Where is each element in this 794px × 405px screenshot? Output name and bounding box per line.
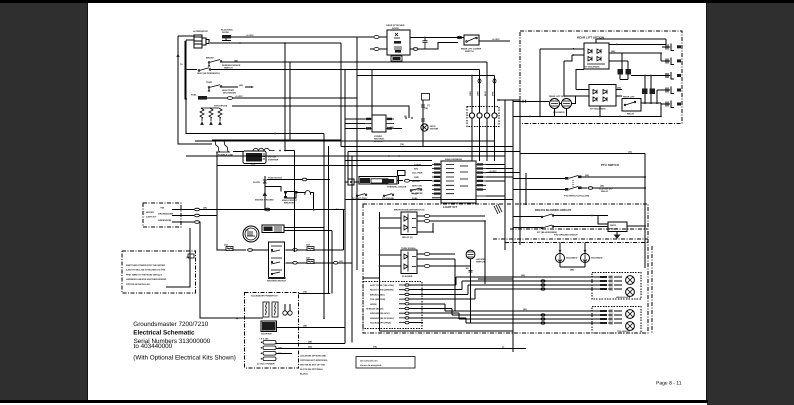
main harness connector J1 [412, 158, 486, 203]
svg-text:KIT SOLENOID: KIT SOLENOID [584, 66, 600, 69]
wire table row6 jog [409, 309, 602, 316]
svg-text:(09): (09) [234, 59, 238, 62]
svg-text:(50): (50) [308, 346, 312, 349]
svg-text:IGN: IGN [414, 168, 418, 171]
svg-text:(60): (60) [521, 274, 525, 277]
taillight cluster dotted [592, 307, 641, 334]
vertical bus x330 [328, 146, 330, 294]
wire cn2 drop [622, 53, 661, 61]
wire bus y199.6 [345, 199, 513, 201]
svg-text:LEFT TURN (YELLOW): LEFT TURN (YELLOW) [370, 284, 394, 287]
svg-text:(42): (42) [239, 84, 243, 87]
wire block rows right [486, 165, 520, 197]
rear steering valve V1 [386, 24, 410, 61]
svg-text:ADAPTER: ADAPTER [261, 333, 272, 336]
svg-text:LOCATION OF ROW AND: LOCATION OF ROW AND [300, 355, 327, 358]
svg-text:(29): (29) [303, 325, 307, 328]
svg-text:(31): (31) [339, 260, 343, 263]
svg-text:STARTER: STARTER [268, 159, 279, 162]
svg-text:SWITCH: SWITCH [465, 50, 474, 53]
connector P1 [370, 36, 387, 51]
wire bus y141 [195, 140, 495, 142]
wire water kit row1 [172, 209, 194, 211]
svg-text:15A: 15A [224, 244, 228, 247]
wire k2 top feed [596, 39, 666, 44]
wire: arrow on x178 [176, 53, 179, 57]
vertical bus x345 [344, 70, 346, 344]
capacitor C1 [410, 37, 458, 49]
svg-text:+5 VDC: +5 VDC [492, 38, 500, 41]
wire x191 down through caution box [166, 228, 190, 287]
wire bus y146 [341, 146, 513, 148]
svg-text:(BL): (BL) [251, 163, 256, 166]
relay K3 lower coil [589, 85, 616, 111]
svg-text:to 403440000: to 403440000 [134, 343, 173, 350]
location note [300, 355, 328, 376]
svg-text:BREAKER: BREAKER [284, 202, 295, 205]
svg-text:THERMAL GAUGE: THERMAL GAUGE [387, 186, 407, 189]
wire key feed [233, 249, 246, 251]
diode D1 fusible link [221, 29, 233, 41]
relay K6 pto label [588, 185, 646, 194]
dashed divider pto/light [493, 238, 648, 240]
wire pto rows [513, 177, 645, 190]
diode D2 glow [253, 176, 339, 211]
wire relay1 left [363, 212, 513, 331]
svg-text:RELAY: RELAY [601, 190, 609, 193]
svg-text:GRN: GRN [476, 91, 479, 96]
vertical bus x526 [525, 173, 527, 205]
svg-text:(45): (45) [617, 86, 621, 89]
wire gauge to verticals [284, 228, 332, 231]
svg-text:BRAKE: BRAKE [206, 57, 214, 60]
hour meter HM1 [243, 226, 259, 242]
wire table row8 jog [409, 318, 602, 323]
svg-text:REAR LIFT SOL: REAR LIFT SOL [549, 95, 566, 98]
svg-text:PTO SWITCH: PTO SWITCH [601, 163, 619, 167]
svg-text:MAIN HARNESS: MAIN HARNESS [445, 158, 462, 161]
svg-text:ACCESSORY POWER KIT: ACCESSORY POWER KIT [251, 295, 278, 298]
svg-text:GLOW: GLOW [253, 181, 261, 184]
switch S5 oil pressure [410, 188, 423, 195]
svg-text:shown de-energized.: shown de-energized. [360, 364, 382, 367]
relay K4 brake/horn [401, 212, 417, 239]
svg-text:(76): (76) [303, 291, 307, 294]
svg-text:GREEN/GRN: GREEN/GRN [158, 219, 172, 222]
wire k9 right [641, 103, 661, 116]
svg-text:MOTOR: MOTOR [430, 128, 439, 131]
vertical x645 [644, 154, 646, 269]
svg-text:HEADLIGHTS: HEADLIGHTS [616, 296, 631, 299]
wire bus y75.5 [357, 75, 495, 77]
svg-text:PTO GROUND GROUP: PTO GROUND GROUP [554, 234, 578, 237]
svg-text:+5 VDC: +5 VDC [489, 170, 497, 173]
relay K9 rear lift relay [622, 96, 641, 116]
blower switch S9 [537, 214, 557, 234]
svg-text:(With Optional Electrical Kits: (With Optional Electrical Kits Shown) [133, 355, 236, 362]
svg-text:CAN KIT WILL BE ATTACHED TO TH: CAN KIT WILL BE ATTACHED TO THE [126, 269, 166, 272]
fuel gauge G1 [262, 225, 284, 233]
breaker CB1 main circuit [265, 187, 314, 210]
connector sq J5 [348, 179, 354, 185]
wire brake row [222, 61, 487, 63]
svg-text:SEAT (IN PRESENCE): SEAT (IN PRESENCE) [197, 72, 220, 75]
caution note box [122, 251, 195, 293]
solenoid SOL1 [556, 250, 578, 263]
wire k4 right verticals [455, 221, 513, 311]
wire table row5 jog [409, 304, 602, 311]
wire relay1 right [417, 215, 424, 217]
svg-text:ACCESSORY (PINK): ACCESSORY (PINK) [370, 322, 391, 325]
wire k2 loop left [540, 49, 572, 117]
wire k3 left [564, 55, 589, 96]
vertical bus x341 [340, 43, 342, 147]
svg-text:7A: 7A [180, 63, 183, 66]
svg-text:TAIL (BROWN): TAIL (BROWN) [370, 298, 385, 301]
svg-text:GROUND (BLACK): GROUND (BLACK) [370, 312, 390, 315]
svg-text:AIR DUPLEX: AIR DUPLEX [214, 105, 228, 108]
taillight lamp B3 [626, 310, 635, 319]
svg-text:10A: 10A [306, 257, 310, 260]
wire x200 down to accessory kit [200, 250, 244, 318]
vertical x423 [422, 100, 424, 146]
svg-text:GND: GND [414, 176, 419, 179]
wire gauge left [345, 181, 359, 183]
fusible links FL1 FL2 [213, 140, 233, 157]
light kit outer edge [651, 246, 653, 334]
wires strip up [472, 62, 495, 113]
svg-text:SOLENOID: SOLENOID [566, 257, 578, 260]
svg-text:All solenoids are: All solenoids are [360, 360, 378, 363]
svg-text:PTO SWITCH (YELLOW): PTO SWITCH (YELLOW) [564, 195, 589, 198]
svg-text:(44): (44) [611, 50, 615, 53]
svg-text:Groundsmaster 7200/7210: Groundsmaster 7200/7210 [133, 321, 208, 328]
svg-text:PNK: PNK [491, 91, 494, 96]
svg-text:SHUTDOWN: SHUTDOWN [223, 91, 236, 94]
wire seat row [186, 69, 480, 71]
svg-text:Page 8 - 11: Page 8 - 11 [656, 381, 682, 387]
svg-text:LIGHT KIT: LIGHT KIT [443, 205, 457, 209]
wire water kit row3 [172, 221, 194, 223]
wire acc kit rows [240, 317, 266, 319]
svg-text:TEMP: TEMP [206, 81, 213, 84]
svg-text:HARNESS UNLESS ANOTHER WIRING: HARNESS UNLESS ANOTHER WIRING [126, 278, 167, 281]
fuse F4 [272, 302, 278, 317]
svg-text:15A: 15A [306, 244, 310, 247]
wire ign row1 right [285, 249, 292, 251]
dashed divider pto box bottom [510, 228, 648, 230]
svg-text:DECKS BLOWER CIRCUIT: DECKS BLOWER CIRCUIT [535, 208, 572, 212]
svg-text:BLU: BLU [484, 91, 487, 96]
vertical bus x513 [512, 100, 514, 352]
headlight lamp B2 [626, 288, 635, 297]
wire sensor out right [394, 128, 402, 130]
wire table row7 jog [409, 313, 602, 319]
svg-text:+ 5 5 15A: + 5 5 15A [259, 338, 269, 341]
terminal T12 [188, 254, 194, 258]
svg-text:HI-BEAM (BLUE): HI-BEAM (BLUE) [366, 308, 384, 311]
svg-text:ALTERNATOR: ALTERNATOR [193, 30, 208, 33]
svg-text:FUSE BLOCK: FUSE BLOCK [268, 177, 283, 180]
wire alternator B+ [210, 42, 341, 44]
wire temp row [222, 86, 253, 88]
wire relay2 left [380, 255, 402, 266]
wire table row9 stub [409, 322, 423, 324]
wire sensor rows left [345, 119, 365, 129]
interconnect strip X1 [467, 107, 499, 127]
svg-text:SWITCH: SWITCH [476, 261, 485, 264]
svg-text:BRAKE (RED): BRAKE (RED) [370, 293, 385, 296]
svg-text:(-): (-) [502, 346, 504, 349]
svg-text:(26): (26) [308, 341, 312, 344]
svg-text:BRAKE/HI-BEAM/HORN (KIT): BRAKE/HI-BEAM/HORN (KIT) [394, 209, 425, 212]
gauge cluster module [359, 177, 407, 189]
wire air duplex feed [232, 105, 357, 107]
wire table row3 riser [409, 285, 602, 294]
svg-text:(66): (66) [570, 269, 574, 272]
wire starter out [217, 165, 432, 167]
wire k3 bottom drop [555, 106, 601, 116]
headlight cluster dotted [592, 273, 641, 300]
hydro sensor U2 [353, 106, 413, 143]
svg-text:SWITCHED POWER FOR THE WATER: SWITCHED POWER FOR THE WATER [126, 264, 166, 267]
switch S2 seat presence [197, 68, 220, 75]
svg-text:69: 69 [466, 267, 469, 270]
pto switch S8 [564, 176, 589, 198]
svg-text:(8): (8) [404, 115, 407, 118]
svg-text:ENGINE GROUND: ENGINE GROUND [255, 199, 274, 202]
terminal stack TB1 [257, 338, 282, 366]
inline connectors lamp feeds [541, 280, 545, 282]
rear lift option box [520, 31, 682, 124]
wire connector3 row [631, 75, 666, 77]
svg-text:PINK WIRE AT THE MAIN VEHICLE: PINK WIRE AT THE MAIN VEHICLE [126, 273, 163, 276]
wire bus y160.4 [345, 159, 432, 161]
wire bus y152 [348, 152, 520, 180]
svg-text:+5 VDC: +5 VDC [246, 34, 254, 37]
switch S6 row [352, 194, 395, 200]
svg-text:ACC PWR: ACC PWR [412, 172, 423, 175]
relay K8 power port [261, 321, 277, 336]
svg-text:KIT SOLENOID: KIT SOLENOID [590, 108, 606, 111]
svg-text:DIODE: DIODE [222, 31, 229, 34]
svg-text:Electrical Schematic: Electrical Schematic [133, 330, 195, 337]
diode pair D6 [618, 53, 632, 80]
solenoid L2 [553, 99, 572, 115]
wires strip down [472, 118, 495, 161]
wire table row2 riser [409, 281, 602, 290]
svg-text:(78): (78) [424, 107, 428, 110]
svg-text:SENSOR: SENSOR [374, 140, 384, 143]
wire hazard down [470, 259, 472, 323]
hatch connector top right [494, 204, 502, 214]
svg-text:MAY BE IN ANY OF THE: MAY BE IN ANY OF THE [300, 364, 325, 367]
water cart kit box [143, 203, 181, 227]
ignition switch SW1 [267, 242, 286, 283]
wire table row4 riser [409, 289, 602, 299]
wire +12VDC to rear valve [231, 36, 374, 38]
svg-text:BRAKE: BRAKE [412, 180, 420, 183]
svg-text:SOLENOID: SOLENOID [591, 257, 603, 260]
svg-text:BLOCK.: BLOCK. [300, 373, 309, 376]
wire x330 acc top [329, 292, 331, 295]
svg-text:HORN: HORN [370, 303, 377, 306]
svg-text:DECK: DECK [610, 224, 617, 227]
wire pto top [520, 153, 645, 155]
wire: main vertical bus left x178 [178, 36, 212, 144]
wire bus y156 [186, 155, 505, 157]
svg-text:(39): (39) [390, 126, 394, 129]
wire feed links [178, 140, 341, 152]
solenoid L1 [549, 95, 566, 109]
solenoid FS fuel stop [191, 94, 357, 100]
wire relay2 right [417, 253, 424, 255]
svg-text:+5B: +5B [160, 207, 164, 210]
junction [239, 42, 241, 44]
svg-text:(61): (61) [523, 308, 527, 311]
svg-text:(7): (7) [427, 104, 430, 107]
wire ign row2 right [285, 262, 292, 264]
svg-text:IGNITION SWITCH: IGNITION SWITCH [267, 280, 286, 283]
svg-text:(76): (76) [373, 346, 377, 349]
svg-text:FUEL: FUEL [412, 197, 418, 200]
wire battery bus down [284, 43, 286, 151]
headlight lamp B1 [626, 276, 635, 285]
relay K5 turn signal [401, 250, 417, 278]
wire gauge out [397, 180, 403, 182]
connector col CN1 [622, 39, 681, 108]
vertical bus x372 [371, 70, 373, 116]
switch S1 parking brake [206, 57, 241, 70]
wire water kit row2 [172, 215, 194, 217]
solenoid SOL2 [581, 250, 603, 263]
vertical bus x505 [504, 100, 506, 250]
svg-text:12 VOLT POWER: 12 VOLT POWER [257, 363, 275, 366]
connector table J2 [363, 282, 422, 329]
wire solenoid feed [513, 100, 549, 102]
relay K2 raise coil [584, 43, 609, 69]
hazard switch S10 [466, 250, 486, 263]
fuse F3 [263, 302, 269, 317]
wire glow row [267, 179, 302, 181]
svg-text:WATER: WATER [146, 211, 154, 214]
svg-text:GEAR ATTACHED: GEAR ATTACHED [386, 24, 405, 27]
svg-text:(74): (74) [400, 143, 404, 146]
svg-text:OPTIONS NOT SPECIFIED,: OPTIONS NOT SPECIFIED, [300, 359, 328, 362]
svg-text:TEMP: TEMP [412, 193, 419, 196]
taillight stubs [600, 310, 622, 325]
glow plugs GP1-3 [200, 105, 228, 126]
svg-text:FLASHER: FLASHER [402, 275, 413, 278]
starter M1 [243, 148, 286, 163]
wire x185 drop to fuel row [185, 41, 187, 99]
svg-text:ORANGE/GRN: ORANGE/GRN [158, 213, 173, 216]
vertical bus x520 [519, 100, 521, 245]
wire connector4 row [657, 90, 666, 104]
svg-text:SEAT SW: SEAT SW [412, 184, 423, 187]
rear lift lower switch S7 [461, 35, 482, 53]
component U3 small [398, 171, 406, 176]
svg-text:RIGHT TURN (GREEN): RIGHT TURN (GREEN) [370, 289, 394, 292]
wire bottom bus [513, 115, 661, 117]
svg-text:START: START [414, 164, 422, 167]
svg-text:OPTION IS INSTALLED.: OPTION IS INSTALLED. [126, 283, 151, 286]
wire x513 bottom [512, 319, 514, 352]
relay K7 blower [608, 222, 646, 239]
wire x217 ignition bus [217, 152, 226, 250]
svg-text:SWITCH: SWITCH [224, 66, 233, 69]
wire k2 right [609, 53, 628, 61]
vertical bus x357 [356, 37, 358, 270]
svg-text:AT SEAT ONLY: AT SEAT ONLY [352, 197, 368, 200]
switch S3 high temp shutdown [206, 81, 236, 94]
wire blower top [598, 216, 608, 225]
fuse F5 [307, 247, 314, 251]
svg-text:(33): (33) [628, 151, 632, 154]
svg-text:(42): (42) [585, 174, 589, 177]
wires solenoids up [560, 242, 585, 267]
wire starter solenoid down [285, 151, 295, 253]
wire: vertical x186 alternator loop [186, 40, 324, 134]
svg-text:(40): (40) [600, 185, 604, 188]
vertical bus x324 [323, 134, 325, 319]
headlight stubs [600, 276, 622, 291]
alternator AL1 [178, 30, 209, 48]
svg-text:ORN: ORN [469, 91, 472, 96]
svg-text:RELAY (2): RELAY (2) [402, 236, 413, 239]
light kit dashed box [363, 204, 648, 333]
svg-text:TAILLIGHTS: TAILLIGHTS [617, 330, 630, 333]
svg-text:RELAY: RELAY [627, 113, 635, 116]
accessory power kit box [245, 292, 299, 368]
fuse F2 key feed [224, 244, 233, 251]
svg-text:TO ENGINE: TO ENGINE [382, 197, 395, 200]
svg-text:MARKER (BLACK/WH): MARKER (BLACK/WH) [370, 317, 394, 320]
wire strip right [497, 99, 520, 101]
vertical bus x332 [331, 231, 333, 294]
diode pair D7 [642, 76, 655, 105]
wire bottom of loop [274, 133, 276, 135]
wire k3 right [616, 89, 622, 96]
taillight lamp B4 [626, 322, 635, 331]
svg-text:12V: 12V [245, 229, 249, 232]
svg-text:(28): (28) [203, 207, 207, 210]
wire blower rows [513, 216, 608, 228]
wire table row1 riser [409, 277, 602, 285]
svg-text:FUEL: FUEL [191, 94, 197, 97]
vertical bus x352 [351, 156, 353, 342]
connector circles [283, 311, 287, 315]
motor M2 rico [421, 124, 439, 131]
svg-text:CART KIT: CART KIT [146, 216, 157, 219]
svg-text:PTO SW: PTO SW [412, 189, 422, 192]
wire lower valve out [410, 48, 413, 50]
wire switch out [458, 38, 510, 42]
fuse F6 [307, 260, 314, 264]
wire k2 left stubs [572, 49, 584, 55]
all solenoids note box [356, 357, 415, 369]
svg-text:SLOTS ON OPTIONAL: SLOTS ON OPTIONAL [300, 368, 324, 371]
